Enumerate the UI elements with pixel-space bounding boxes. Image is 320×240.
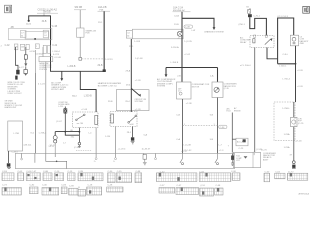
svg-text:1-C08: 1-C08 [134, 41, 141, 43]
a/c ecu label [227, 107, 232, 112]
svg-text:L-150 B: L-150 B [171, 62, 179, 64]
relay L coil output to band [95, 128, 97, 154]
svg-text:5A-4: 5A-4 [72, 94, 77, 97]
svg-text:L (C-38: L (C-38 [184, 144, 192, 146]
connector C-47 row2 table [176, 185, 199, 195]
svg-text:1: 1 [36, 46, 37, 48]
relay ground long wire [254, 48, 256, 153]
wire with fuse symbol [24, 47, 27, 76]
ignition T distribution [166, 68, 218, 83]
terminal blob [16, 70, 19, 75]
svg-text:C-93: C-93 [69, 186, 75, 188]
svg-text:07-1 C-8-3: 07-1 C-8-3 [277, 16, 288, 18]
svg-text:L 700-4: L 700-4 [283, 78, 291, 80]
left wire-color legend text [5, 82, 26, 109]
connector C-8B table [135, 171, 142, 183]
glove lamp symbol [177, 31, 182, 36]
connector C-15 table [68, 171, 76, 180]
relay L ground wire [78, 128, 80, 143]
connector C-1B table [2, 171, 14, 180]
connector C-33 table [199, 171, 231, 181]
connector C-1B on wire [51, 25, 58, 28]
tall left component box [8, 121, 23, 151]
junction dot inside J/B [34, 38, 36, 40]
svg-text:wu OM: wu OM [77, 123, 84, 125]
svg-text:(C-07: (C-07 [56, 121, 62, 123]
wire from DLC down to band [45, 62, 47, 154]
svg-text:+C-33: +C-33 [135, 109, 142, 111]
svg-text:23-B: 23-B [174, 24, 179, 26]
svg-text:+C-20: +C-20 [297, 86, 304, 88]
band junction dot [56, 161, 58, 163]
dashed mechanical link [82, 58, 104, 60]
terminal square [79, 58, 82, 61]
svg-text:L 258: L 258 [14, 133, 20, 135]
dark wire through shield box [130, 39, 132, 112]
svg-text:J/B: J/B [10, 27, 14, 29]
connector C-48 row2 table [215, 185, 223, 195]
band switch symbols [180, 159, 219, 165]
relay RT pin squares [254, 35, 256, 37]
band component at 143 [143, 155, 147, 165]
svg-text:SM DB: SM DB [75, 6, 83, 9]
diagonal arrow circuit-on [131, 88, 139, 95]
sensor drop to band [54, 143, 56, 154]
battery wire route [250, 17, 267, 35]
svg-text:C-47: C-47 [177, 185, 183, 187]
relay output W3 [267, 48, 278, 59]
svg-text:1-25A: 1-25A [284, 133, 290, 136]
svg-text:1-2C23: 1-2C23 [105, 59, 113, 61]
relay L contacts [76, 114, 98, 125]
svg-text:34-B: 34-B [42, 21, 47, 23]
svg-text:SYSTEM: SYSTEM [135, 101, 144, 103]
svg-text:C-48: C-48 [216, 185, 222, 187]
fan motor return wire [295, 46, 297, 102]
a/c ecu wire [231, 113, 233, 153]
data link connector box [39, 57, 53, 62]
smart j/b wire [79, 10, 81, 28]
svg-text:29-A: 29-A [126, 69, 131, 72]
svg-text:2-B: 2-B [177, 76, 181, 78]
svg-text:BLOWER L 267 me: BLOWER L 267 me [98, 86, 118, 88]
svg-text:C-73: C-73 [2, 185, 8, 187]
connector C-2B row2 table [107, 184, 123, 192]
svg-text:1-258-L: 1-258-L [282, 108, 290, 110]
fuse label above ign wire [173, 7, 191, 12]
svg-text:42: 42 [178, 38, 180, 40]
smart j/b lower wire [79, 37, 81, 57]
branch arrow to compressor [61, 71, 63, 78]
svg-text:29-B: 29-B [98, 65, 103, 67]
wire K-0 down to band [34, 73, 36, 153]
svg-text:L257: L257 [236, 160, 240, 162]
svg-text:FDB: FDB [86, 33, 91, 35]
connector C-3C table [116, 171, 132, 182]
connector B table [78, 187, 86, 196]
svg-text:C-A: C-A [176, 138, 180, 141]
svg-text:C3: C3 [127, 32, 129, 34]
compressor shield box [116, 90, 149, 111]
svg-text:5-B: 5-B [210, 114, 214, 116]
glove lamp feed box (wide) [132, 29, 183, 39]
svg-text:+-C-37: +-C-37 [181, 151, 187, 153]
connector C-83 table [61, 184, 67, 193]
svg-text:+C-20: +C-20 [297, 70, 304, 72]
svg-text:3-150 A: 3-150 A [171, 46, 179, 49]
dashed enclosure right [274, 102, 295, 141]
connector row under J/B [14, 44, 50, 54]
wire into resistor [293, 102, 295, 117]
connector C-93 table [69, 186, 78, 195]
connector C-72 table [287, 171, 307, 180]
svg-text:2-A: 2-A [210, 75, 214, 78]
svg-text:C-34: C-34 [220, 127, 226, 129]
svg-text:C-30: C-30 [42, 185, 48, 187]
svg-text:29-4: 29-4 [125, 101, 130, 103]
svg-text:29-B: 29-B [108, 101, 113, 103]
svg-text:ECU: ECU [227, 111, 232, 113]
svg-text:1-7: 1-7 [63, 142, 66, 144]
connector C-1B row2 table [87, 184, 102, 195]
svg-text:1-150: 1-150 [105, 136, 111, 138]
wire to diode [16, 47, 19, 72]
svg-text:+C-08: +C-08 [81, 109, 88, 111]
svg-text:4 C-09: 4 C-09 [54, 57, 61, 59]
svg-text:MOTOR: MOTOR [192, 86, 200, 88]
diode pack on sensor wire [63, 107, 67, 132]
band dark sensor right [231, 154, 234, 166]
relay L dashed box [73, 112, 99, 128]
labels above band [23, 142, 186, 153]
connector C-03 table [18, 171, 24, 180]
junction block J/B [9, 28, 52, 39]
svg-text:64: 64 [127, 35, 129, 37]
main dark feed horizontal [51, 62, 105, 72]
svg-text:ASSY: ASSY [263, 158, 269, 161]
condensat motor box [177, 82, 192, 99]
svg-text:L 200-B: L 200-B [68, 66, 76, 68]
svg-text:o7-L 200-4: o7-L 200-4 [240, 65, 251, 67]
svg-text:L-250: L-250 [58, 106, 63, 108]
svg-text:C-8-L: C-8-L [283, 54, 289, 56]
connector C-73 table row2 [2, 185, 21, 195]
connector label on heater wire [105, 59, 113, 61]
svg-text:2+: 2+ [94, 161, 96, 163]
svg-text:(250-1: (250-1 [239, 24, 246, 26]
fuse label top (CENTRAL JUNCTION SW) [37, 7, 58, 16]
relay RT contacts [253, 39, 271, 45]
svg-text:ENGIN: ENGIN [234, 110, 241, 112]
connector C-10 table [55, 171, 64, 180]
svg-text:29-1: 29-1 [127, 132, 132, 134]
ground G1 [7, 151, 11, 169]
svg-text:+(7-2D: +(7-2D [295, 140, 302, 142]
condenser fan relay dashed box [250, 36, 274, 48]
dashed link between motor wires [183, 125, 218, 127]
svg-text:L 258-4: L 258-4 [39, 133, 47, 135]
svg-text:1-25A: 1-25A [284, 146, 290, 149]
svg-text:1-(C-35: 1-(C-35 [184, 41, 192, 43]
resistor box [291, 117, 297, 126]
condenser fan motor box [290, 35, 298, 46]
svg-text:FRONT LAMP: FRONT LAMP [51, 88, 65, 91]
svg-text:4-C23: 4-C23 [53, 54, 60, 56]
svg-text:C-18: C-18 [88, 184, 94, 186]
svg-text:+C-3: +C-3 [219, 150, 225, 152]
heater arrow terminal [103, 69, 106, 72]
connector C-8 row2 table [200, 185, 214, 196]
svg-text:CHARGING SYSTEM: CHARGING SYSTEM [204, 31, 224, 34]
svg-text:+C-02: +C-02 [184, 54, 191, 56]
blower fan motor box [212, 82, 223, 98]
splice node top-left [28, 20, 30, 22]
svg-text:1-(C-08: 1-(C-08 [135, 58, 143, 60]
svg-text:L-W: L-W [192, 30, 196, 32]
svg-text:ENGINE-AC: ENGINE-AC [173, 9, 186, 12]
connector C-30 table row2 [42, 185, 59, 195]
branch to charging system [182, 18, 214, 27]
svg-text:4-C7: 4-C7 [19, 67, 25, 69]
splice circle [292, 161, 295, 164]
svg-text:C-33 4: C-33 4 [12, 151, 19, 153]
svg-text:C-83: C-83 [61, 184, 67, 186]
thermo switch circles [53, 136, 57, 143]
svg-text:+C-33: +C-33 [135, 80, 142, 82]
relay R ground wire [132, 127, 134, 138]
svg-text:C-70-1: C-70-1 [253, 16, 260, 18]
svg-text:L 200-B: L 200-B [84, 96, 92, 98]
svg-text:2+: 2+ [113, 161, 115, 163]
svg-text:V7 47: V7 47 [50, 145, 55, 147]
svg-text:5-A: 5-A [144, 133, 148, 136]
svg-text:L 200-L: L 200-L [279, 65, 287, 67]
svg-text:C-23: C-23 [239, 148, 245, 150]
svg-text:C-1B: C-1B [52, 26, 58, 28]
svg-text:(C-35: (C-35 [224, 88, 230, 90]
ground G2 [78, 142, 81, 147]
ground G3 [131, 137, 135, 144]
svg-text:ACC-A7: ACC-A7 [237, 140, 244, 143]
control panel band box [15, 153, 234, 168]
svg-text:C-B: C-B [176, 114, 180, 116]
relay R dashed box [110, 112, 137, 127]
short stub wire [34, 50, 36, 73]
a/c control unit box bottom right [234, 152, 261, 167]
svg-text:C-22: C-22 [52, 45, 58, 47]
smart j/b box [77, 28, 85, 37]
svg-text:4 C-23: 4 C-23 [38, 84, 45, 86]
svg-text:HEATER-UNIT: HEATER-UNIT [5, 106, 18, 109]
svg-text:C2-B: C2-B [174, 15, 180, 17]
svg-text:SYSTEM: SYSTEM [157, 86, 166, 88]
svg-text:103: 103 [21, 47, 24, 49]
svg-text:+C-38: +C-38 [186, 103, 193, 105]
connector C-32 table [156, 171, 197, 181]
page-ref box 2 [303, 6, 310, 13]
dark routing horizontals [55, 132, 79, 136]
heater bold annotation [98, 82, 122, 87]
connector C-82 table [30, 184, 39, 193]
svg-text:C-82: C-82 [30, 184, 36, 186]
over-route loop to fan motor [278, 18, 296, 64]
svg-text:29-4: 29-4 [126, 85, 131, 87]
page-ref box 1 [5, 5, 12, 13]
fusible link top right [246, 7, 251, 14]
connector C-2B table [78, 171, 103, 181]
resistor lower wire [293, 127, 295, 161]
svg-text:(C-70: (C-70 [261, 150, 267, 152]
branch down to relay L [80, 71, 96, 112]
relay R contacts [111, 114, 137, 123]
connector C sliver table [231, 171, 240, 180]
connector C-05 table [26, 171, 40, 180]
svg-text:C-37: C-37 [160, 185, 166, 187]
relay R output to band [115, 127, 117, 154]
connector C-60 table [264, 171, 270, 181]
svg-text:0-15B-B: 0-15B-B [36, 53, 44, 55]
svg-text:RELAY: RELAY [240, 41, 247, 44]
svg-text:29-1: 29-1 [98, 22, 103, 24]
svg-text:C-28: C-28 [108, 184, 114, 186]
svg-text:L 200-4: L 200-4 [52, 51, 60, 53]
svg-text:SYSTEM: SYSTEM [39, 69, 47, 71]
wire battery feed top-left [29, 16, 51, 64]
svg-text:(C-2D: (C-2D [298, 123, 304, 125]
svg-text:4-38 4-11: 4-38 4-11 [23, 145, 31, 147]
heater feed wire (thick gray) [103, 11, 105, 70]
small fuse box at its left [126, 30, 132, 38]
ground G4 [292, 165, 296, 169]
connector C-38 oval [184, 25, 193, 29]
svg-text:C-02: C-02 [5, 45, 11, 47]
fuse label above smart j/b [74, 6, 86, 10]
svg-text:R:RED V:VIOLET: R:RED V:VIOLET [8, 93, 23, 95]
band pin ticks [22, 153, 218, 168]
svg-text:4WD: 4WD [300, 43, 305, 45]
svg-text:AYWT00LA: AYWT00LA [299, 192, 310, 195]
connector C-0B table [43, 171, 52, 180]
wire into DLC [42, 47, 44, 57]
battery connector blob [248, 14, 252, 17]
wires below motors [182, 99, 184, 154]
svg-text:(C-33 47: (C-33 47 [142, 148, 151, 150]
connector C-3B table [108, 171, 116, 183]
thermo sensor text [58, 102, 70, 108]
dashed stub link [76, 150, 92, 152]
svg-text:5-B: 5-B [210, 139, 214, 141]
svg-text:A-06: A-06 [26, 22, 31, 25]
dual pressure switch box [234, 107, 241, 112]
svg-text:+C-23 4: +C-23 4 [118, 148, 127, 150]
svg-text:(C-32: (C-32 [74, 147, 79, 149]
fuse label above 10A wire [98, 6, 111, 11]
svg-text:C-38: C-38 [185, 27, 191, 29]
band pin circles [21, 158, 157, 160]
main ignition dark wire [181, 12, 183, 68]
connector C-37 row2 table [159, 185, 175, 193]
svg-text:u0M: u0M [130, 124, 134, 126]
connector C-62 table [275, 171, 285, 178]
